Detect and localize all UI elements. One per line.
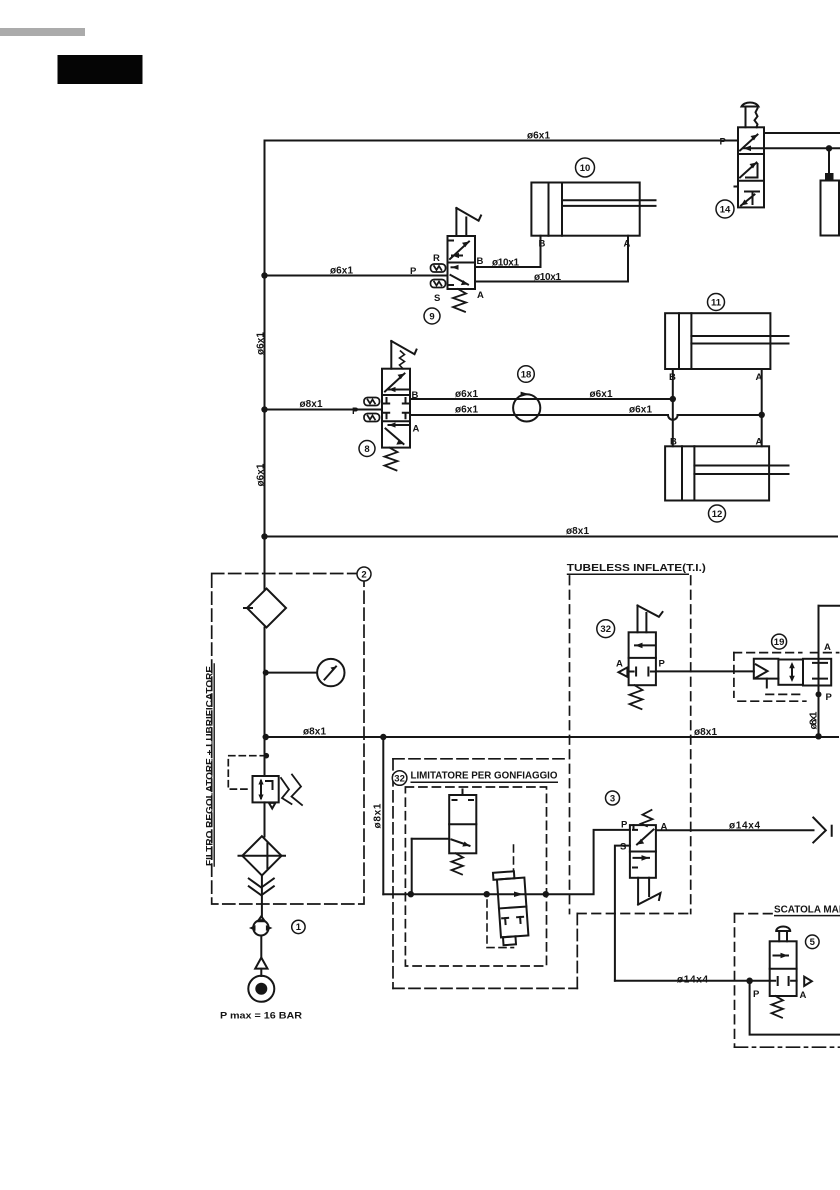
svg-text:B: B [669,372,676,383]
svg-text:8: 8 [364,444,369,455]
svg-text:ø6x1: ø6x1 [527,131,550,142]
svg-text:ø6x1: ø6x1 [455,405,478,416]
svg-text:P: P [826,692,833,703]
svg-text:FILTRO REGOLATORE + LUBRIFICAT: FILTRO REGOLATORE + LUBRIFICATORE [205,666,215,866]
svg-text:B: B [412,390,419,401]
svg-text:ø10x1: ø10x1 [534,272,561,283]
svg-text:B: B [670,437,677,448]
svg-text:5: 5 [810,937,816,948]
svg-text:A: A [477,290,484,301]
svg-text:S: S [620,842,626,853]
svg-text:18: 18 [521,370,532,381]
svg-text:P: P [720,137,727,148]
svg-text:ø6x1: ø6x1 [455,389,478,400]
svg-text:ø8x1: ø8x1 [694,727,717,738]
svg-text:ø8x1: ø8x1 [566,526,589,537]
svg-text:B: B [539,239,546,250]
svg-text:P: P [753,989,760,1000]
svg-text:A: A [756,437,763,448]
svg-text:32: 32 [600,624,611,635]
svg-text:P: P [410,266,417,277]
svg-text:ø6x1: ø6x1 [256,463,267,486]
svg-text:9: 9 [429,312,434,323]
svg-text:A: A [616,659,623,670]
svg-text:ø10x1: ø10x1 [492,258,519,269]
svg-text:32: 32 [394,774,405,785]
svg-text:SCATOLA MANOM: SCATOLA MANOM [774,904,840,916]
svg-text:10: 10 [580,163,591,174]
svg-text:ø8x1: ø8x1 [373,803,384,828]
svg-text:S: S [434,293,440,304]
svg-text:11: 11 [711,298,722,309]
svg-text:P: P [621,820,628,831]
svg-text:ø6x1: ø6x1 [330,266,353,277]
svg-text:ø14x4: ø14x4 [729,821,760,832]
svg-text:ø6x1: ø6x1 [256,332,267,355]
svg-text:A: A [824,642,831,653]
svg-text:14: 14 [720,205,731,216]
svg-text:P: P [659,659,666,670]
svg-text:2: 2 [361,570,366,581]
svg-text:3: 3 [610,794,615,805]
svg-text:ø8x1: ø8x1 [300,399,323,410]
svg-text:R: R [433,253,440,264]
svg-text:A: A [624,239,631,250]
svg-text:A: A [756,372,763,383]
svg-text:LIMITATORE PER GONFIAGGIO: LIMITATORE PER GONFIAGGIO [411,770,558,782]
svg-text:ø8x1: ø8x1 [303,727,326,738]
svg-text:P: P [352,406,359,417]
svg-text:TUBELESS INFLATE(T.I.): TUBELESS INFLATE(T.I.) [567,562,706,574]
svg-text:ø14x4: ø14x4 [677,975,708,986]
svg-text:A: A [800,990,807,1001]
svg-text:P max = 16 BAR: P max = 16 BAR [220,1011,303,1021]
svg-text:ø8x1: ø8x1 [809,711,820,729]
svg-text:1: 1 [296,922,302,933]
svg-text:19: 19 [774,637,785,648]
svg-text:ø6x1: ø6x1 [629,405,652,416]
svg-text:12: 12 [712,509,723,520]
svg-text:A: A [413,424,420,435]
svg-text:ø6x1: ø6x1 [590,389,613,400]
svg-text:B: B [477,256,484,267]
svg-text:A: A [661,822,668,833]
